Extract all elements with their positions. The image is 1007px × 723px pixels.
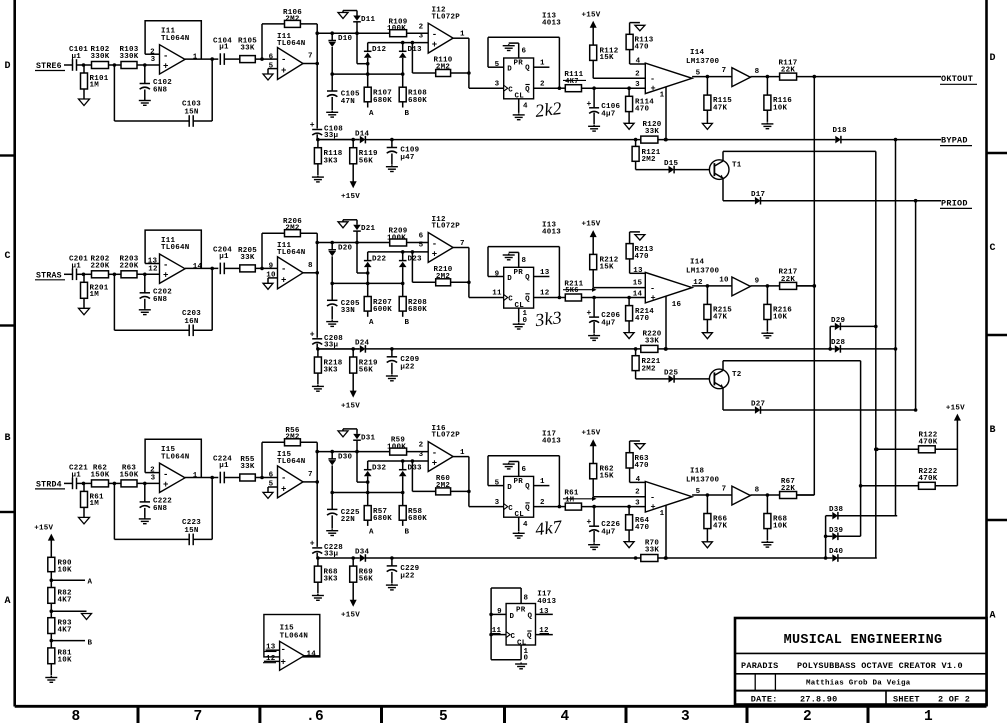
svg-text:PR: PR (516, 607, 526, 615)
diode D12 (364, 43, 387, 76)
resistor R56 feedback value 2M2 (262, 427, 317, 482)
svg-text:7: 7 (194, 709, 203, 723)
svg-text:33K: 33K (645, 338, 660, 346)
svg-text:680K: 680K (408, 97, 427, 105)
svg-text:STRAS: STRAS (36, 271, 62, 280)
wire I13 D input loop (488, 247, 561, 300)
svg-text:33K: 33K (240, 45, 255, 53)
svg-text:330K: 330K (90, 53, 109, 61)
svg-text:TL064N: TL064N (161, 35, 190, 43)
ground (761, 332, 773, 338)
svg-text:2k2: 2k2 (534, 98, 563, 121)
resistor R122 value 470K to +15V (875, 431, 957, 453)
svg-text:C: C (508, 296, 513, 304)
wire bypass line with diode D24 (318, 340, 641, 353)
wire output node (315, 450, 389, 484)
svg-text:CL: CL (517, 639, 527, 647)
svg-text:470: 470 (635, 253, 650, 261)
op-amp I11 first stage (145, 230, 218, 283)
svg-text:56K: 56K (359, 157, 374, 165)
resistor R203 value 220K (119, 255, 159, 278)
resistor R202 value 220K (90, 255, 121, 278)
svg-text:C: C (990, 243, 996, 254)
svg-text:9: 9 (269, 263, 274, 271)
svg-text:BYPAD: BYPAD (941, 136, 968, 146)
capacitor C108 value 33µ (310, 64, 343, 142)
svg-text:+: + (281, 275, 287, 285)
resistor R214 value 470 (626, 298, 655, 333)
border zone letters left (5, 61, 11, 607)
svg-text:150K: 150K (119, 471, 138, 479)
svg-text:1: 1 (460, 449, 465, 457)
svg-text:33K: 33K (645, 547, 660, 555)
svg-text:5: 5 (419, 242, 424, 250)
wire I14 pin 1 (660, 87, 668, 142)
wire I13 D input loop (488, 37, 561, 90)
flip-flop I13 4013 (504, 12, 562, 100)
diode D17 (751, 191, 916, 205)
svg-text:5: 5 (495, 61, 500, 69)
resistor R60 feedback value 2M2 (412, 461, 470, 495)
svg-text:15: 15 (633, 280, 643, 288)
svg-text:-: - (281, 265, 287, 275)
op-amp I16 TL072P comparator (419, 425, 469, 472)
svg-text:7: 7 (722, 485, 727, 493)
svg-text:6N8: 6N8 (153, 505, 168, 513)
svg-text:Q: Q (525, 86, 530, 94)
wire I17 spare clock pin 11 (489, 627, 506, 636)
resistor R90 value 10K (48, 557, 72, 587)
diode D21 with ground flag (338, 220, 376, 245)
diode D11 with ground flag (338, 11, 376, 36)
svg-text:D34: D34 (355, 549, 370, 557)
svg-text:2: 2 (540, 80, 545, 88)
wire OKTOUT bus (813, 77, 817, 495)
wire I13 PR ground pin 8 (503, 252, 527, 267)
wire divider ground tap (50, 609, 92, 619)
svg-text:+: + (651, 84, 656, 94)
svg-text:C223: C223 (182, 519, 201, 527)
capacitor C205 value 33N (327, 283, 360, 319)
svg-text:12: 12 (540, 290, 550, 298)
resistor R206 feedback value 2M2 (262, 218, 317, 273)
svg-text:47K: 47K (713, 523, 728, 531)
svg-text:-: - (281, 645, 287, 655)
svg-text:1: 1 (460, 31, 465, 39)
resistor R217 value 22K (778, 269, 814, 290)
svg-text:TL064N: TL064N (277, 249, 306, 257)
svg-text:5: 5 (696, 70, 701, 78)
svg-text:10K: 10K (58, 567, 73, 575)
svg-text:3: 3 (635, 499, 640, 507)
svg-text:PR: PR (514, 269, 524, 277)
svg-text:33N: 33N (341, 307, 355, 315)
svg-text:2: 2 (635, 489, 640, 497)
wire T2 emitter (723, 388, 755, 410)
node PRIOD output (914, 198, 972, 208)
svg-text:680K: 680K (408, 515, 427, 523)
node STRAS input label (35, 271, 72, 280)
svg-text:1M: 1M (90, 500, 100, 508)
border zone letters right (990, 53, 996, 622)
svg-text:7: 7 (722, 67, 727, 75)
svg-text:B: B (405, 528, 410, 536)
svg-text:3: 3 (495, 499, 500, 507)
svg-text:15N: 15N (184, 527, 198, 535)
resistor R68 value 3K3 (314, 558, 338, 594)
svg-text:+: + (281, 484, 287, 494)
wire I17 spare Qbar pin 12 (536, 627, 553, 635)
svg-text:3K3: 3K3 (324, 157, 339, 165)
svg-text:D29: D29 (831, 317, 846, 325)
wire I17 spare Q pin 13 (536, 608, 553, 616)
wire BYPAD bus (895, 140, 897, 516)
svg-text:TL064N: TL064N (280, 632, 309, 640)
ground (588, 334, 600, 340)
ground (139, 517, 151, 523)
buffer I18 output stage (722, 485, 780, 505)
resistor R121 value 2M2 (632, 140, 661, 170)
capacitor C208 value 33µ (310, 273, 343, 351)
resistor R109 value 100K (387, 18, 428, 36)
svg-text:+: + (651, 293, 656, 303)
svg-text:B: B (88, 639, 93, 647)
svg-text:A: A (990, 611, 996, 622)
svg-text:2: 2 (419, 442, 424, 450)
svg-text:5: 5 (696, 488, 701, 496)
svg-text:9: 9 (755, 278, 760, 286)
svg-text:470: 470 (635, 106, 650, 114)
svg-text:C103: C103 (182, 101, 201, 109)
flip-flop I13 4013 (504, 222, 562, 310)
resistor R219 value 56K to +15V (341, 349, 378, 410)
svg-text:4013: 4013 (542, 19, 561, 27)
svg-text:47N: 47N (341, 98, 355, 106)
svg-text:1: 1 (540, 478, 545, 486)
node STRD4 input label (35, 480, 72, 489)
svg-text:470: 470 (635, 44, 650, 52)
svg-text:22N: 22N (341, 516, 355, 524)
ground (139, 99, 151, 105)
svg-text:-: - (281, 474, 287, 484)
wire I17 Qbar output pin 2 (534, 499, 560, 507)
svg-text:3: 3 (419, 451, 424, 459)
svg-text:D22: D22 (372, 255, 387, 263)
svg-text:9: 9 (495, 270, 500, 278)
resistor R61 value 1M (81, 483, 105, 517)
svg-text:8: 8 (755, 68, 760, 76)
svg-text:+15V: +15V (582, 430, 601, 438)
svg-text:-: - (163, 470, 169, 480)
svg-text:14: 14 (633, 290, 643, 298)
svg-text:4: 4 (561, 709, 570, 723)
resistor R63 value 150K (119, 464, 159, 487)
svg-text:4: 4 (636, 58, 641, 66)
svg-text:PR: PR (514, 478, 524, 486)
wire I17 clock input pin 3 (495, 499, 500, 507)
node B wire (50, 639, 93, 648)
svg-text:10K: 10K (58, 657, 73, 665)
wire PRIOD bus (914, 201, 918, 412)
svg-text:3: 3 (635, 81, 640, 89)
svg-text:3K3: 3K3 (324, 576, 339, 584)
wire jog (357, 452, 370, 484)
diode D27 (751, 400, 916, 414)
svg-text:T1: T1 (732, 162, 742, 170)
wire I14 pin 16 (664, 296, 681, 351)
svg-text:A: A (369, 528, 374, 536)
svg-text:0: 0 (524, 655, 529, 663)
svg-text:+: + (310, 539, 315, 548)
resistor R57 value 680K (364, 493, 392, 526)
svg-text:6: 6 (269, 53, 274, 61)
diode D20 (328, 241, 352, 286)
svg-text:1: 1 (660, 510, 665, 518)
diode D33 (399, 459, 422, 494)
capacitor C228 value 33µ (310, 482, 343, 560)
resistor R58 value 680K (399, 493, 427, 526)
svg-text:D25: D25 (664, 369, 679, 377)
wire D12 D13 line (332, 250, 428, 283)
svg-text:I15: I15 (280, 625, 295, 633)
ground (386, 584, 398, 590)
resistor R106 feedback value 2M2 (262, 9, 317, 64)
svg-text:-: - (650, 74, 655, 84)
svg-text:Matthias Grob Da Veiga: Matthias Grob Da Veiga (806, 679, 911, 687)
svg-text:D18: D18 (833, 127, 848, 135)
svg-text:+15V: +15V (946, 404, 965, 412)
svg-text:-: - (650, 492, 655, 502)
svg-text:150K: 150K (90, 471, 109, 479)
ground (79, 99, 90, 106)
svg-text:D40: D40 (829, 548, 844, 556)
ground (312, 176, 324, 182)
svg-text:SHEET: SHEET (893, 694, 920, 704)
svg-text:D33: D33 (408, 465, 423, 473)
op-amp I12 TL072P comparator (419, 7, 469, 54)
svg-text:MUSICAL ENGINEERING: MUSICAL ENGINEERING (784, 633, 943, 648)
ground (588, 543, 600, 549)
ground (312, 385, 324, 391)
capacitor C225 value 22N (327, 493, 360, 529)
node B (405, 319, 410, 327)
ground (761, 541, 773, 547)
capacitor C102 value 6N8 (140, 65, 173, 99)
svg-text:C: C (508, 505, 513, 513)
svg-text:2M2: 2M2 (642, 156, 657, 164)
capacitor C202 value 6N8 (140, 274, 173, 308)
svg-text:D28: D28 (831, 339, 846, 347)
svg-text:4K7: 4K7 (58, 627, 72, 635)
svg-text:2: 2 (635, 70, 640, 78)
svg-text:16N: 16N (184, 318, 198, 326)
svg-text:-: - (432, 239, 438, 249)
diode D28 (658, 339, 897, 353)
wire I13 CL pin 4 ground (513, 99, 528, 120)
svg-text:4013: 4013 (542, 438, 561, 446)
svg-text:3K3: 3K3 (324, 367, 339, 375)
svg-text:TL064N: TL064N (161, 453, 190, 461)
svg-text:680K: 680K (373, 515, 392, 523)
power +15V (946, 404, 965, 449)
op-amp I11 first stage (145, 21, 218, 74)
svg-text:470: 470 (635, 315, 650, 323)
capacitor C106 value 4µ7 (586, 88, 620, 124)
svg-text:POLYSUBBASS OCTAVE CREATOR V1.: POLYSUBBASS OCTAVE CREATOR V1.0 (797, 661, 963, 671)
svg-text:I18: I18 (690, 467, 705, 475)
svg-text:4013: 4013 (537, 598, 556, 606)
ground (515, 663, 527, 669)
ground (761, 122, 773, 128)
flip-flop I17 4013 (504, 431, 562, 519)
svg-text:33K: 33K (240, 254, 255, 262)
title block (735, 618, 987, 705)
ground (588, 125, 600, 131)
diode D25 (636, 369, 679, 382)
node OKTOUT output (813, 74, 978, 84)
svg-text:3: 3 (151, 56, 156, 64)
capacitor C105 value 47N (327, 74, 360, 110)
capacitor C226 value 4µ7 (586, 507, 620, 543)
resistor R102 value 330K (90, 46, 121, 69)
resistor R220 value 33K (634, 330, 662, 352)
svg-text:470: 470 (635, 524, 650, 532)
svg-text:D17: D17 (751, 191, 765, 199)
wire comparator output (469, 248, 504, 298)
svg-text:4µ7: 4µ7 (601, 110, 615, 118)
power +15V divider (34, 525, 55, 558)
op-amp I15 second stage (268, 451, 317, 498)
capacitor C206 value 4µ7 (586, 298, 620, 334)
node A (369, 319, 374, 327)
ground (624, 123, 634, 129)
capacitor C101 value µ1 (69, 46, 92, 71)
resistor R208 value 680K (399, 283, 427, 316)
resistor R112 value 15K with +15V (582, 11, 646, 78)
wire I13 Qbar output pin 2 (534, 80, 560, 88)
capacitor C222 value 6N8 (140, 483, 173, 517)
resistor R215 value 47K (704, 286, 732, 333)
node A (369, 528, 374, 536)
resistor R201 value 1M (81, 274, 109, 308)
svg-text:1M: 1M (90, 291, 100, 299)
svg-text:1: 1 (193, 472, 198, 480)
op-amp I11 second stage (266, 242, 317, 289)
svg-text:4: 4 (523, 103, 528, 111)
svg-text:5: 5 (439, 709, 448, 723)
svg-text:A: A (5, 596, 11, 607)
resistor R118 value 3K3 (314, 140, 342, 176)
diode D18 (658, 127, 941, 144)
svg-text:13: 13 (148, 258, 158, 266)
diode D30 (328, 450, 352, 495)
resistor R211 modified value (559, 280, 645, 301)
svg-text:I14: I14 (690, 49, 705, 57)
svg-text:56K: 56K (359, 576, 374, 584)
op-amp I11 second stage (268, 33, 317, 80)
capacitor C201 value µ1 (69, 255, 92, 280)
svg-text:27.8.90: 27.8.90 (800, 694, 837, 704)
svg-text:+: + (281, 657, 287, 667)
border zone ticks right (987, 153, 1007, 520)
resistor R82 value 4K7 (48, 588, 72, 618)
svg-text:B: B (990, 425, 996, 436)
svg-text:3: 3 (495, 80, 500, 88)
svg-text:D31: D31 (361, 434, 376, 442)
diode D22 (364, 252, 387, 285)
capacitor C221 value µ1 (69, 464, 92, 489)
svg-text:2: 2 (803, 709, 812, 723)
svg-text:+15V: +15V (341, 193, 360, 201)
node B (405, 528, 410, 536)
op-amp I18 LM13700 OTA (635, 467, 732, 512)
op-amp I15 spare unit (263, 615, 320, 671)
resistor R207 value 600K (364, 283, 392, 316)
ground (386, 375, 398, 381)
svg-text:+15V: +15V (341, 402, 360, 410)
resistor R70 value 33K (634, 539, 660, 561)
wire jog (357, 243, 370, 275)
ground (139, 308, 151, 314)
wire row3 output to bus (797, 494, 815, 496)
wire T1 emitter (723, 178, 755, 200)
svg-text:D: D (507, 484, 512, 492)
wire T2 collector (723, 361, 861, 537)
resistor R107 value 680K (364, 74, 392, 107)
title row DATE 27.8.90 SHEET 2 OF 2 (751, 691, 970, 705)
resistor R213 value 470 with ground flag (626, 232, 654, 273)
svg-text:D27: D27 (751, 400, 765, 408)
svg-text:-: - (163, 51, 169, 61)
svg-text:D38: D38 (829, 506, 844, 514)
ground (79, 517, 90, 524)
svg-text:600K: 600K (373, 306, 392, 314)
svg-text:4µ7: 4µ7 (601, 320, 615, 328)
svg-text:µ22: µ22 (400, 572, 415, 580)
svg-text:33K: 33K (645, 128, 660, 136)
svg-text:680K: 680K (408, 306, 427, 314)
svg-text:3: 3 (681, 709, 690, 723)
buffer I14 output stage (719, 276, 779, 296)
svg-text:10K: 10K (773, 314, 788, 322)
svg-text:8: 8 (72, 709, 81, 723)
svg-text:3k3: 3k3 (533, 307, 563, 330)
svg-text:D11: D11 (361, 16, 376, 24)
svg-text:16: 16 (672, 301, 682, 309)
svg-text:12: 12 (148, 266, 158, 274)
resistor R81 value 10K (48, 648, 72, 676)
resistor R115 value 47K (704, 77, 732, 124)
svg-text:C: C (508, 86, 513, 94)
op-amp I15 first stage (145, 439, 218, 492)
svg-text:TL072P: TL072P (432, 432, 461, 440)
wire D12 D13 line (332, 41, 428, 74)
svg-text:47K: 47K (713, 314, 728, 322)
wire I13 Q output pin 1 (534, 60, 550, 68)
wire bypass line with diode D34 (318, 549, 641, 562)
resistor R62 value 150K (90, 464, 121, 487)
svg-text:D12: D12 (372, 46, 387, 54)
resistor R218 value 3K3 (314, 349, 342, 385)
diode D31 with ground flag (338, 429, 376, 454)
svg-text:6: 6 (522, 48, 527, 56)
svg-text:8: 8 (308, 262, 313, 270)
diode D10 (328, 31, 352, 75)
svg-text:B: B (5, 433, 11, 444)
svg-text:Q: Q (525, 295, 530, 303)
svg-text:15N: 15N (184, 109, 198, 117)
svg-text:TL064N: TL064N (277, 458, 306, 466)
